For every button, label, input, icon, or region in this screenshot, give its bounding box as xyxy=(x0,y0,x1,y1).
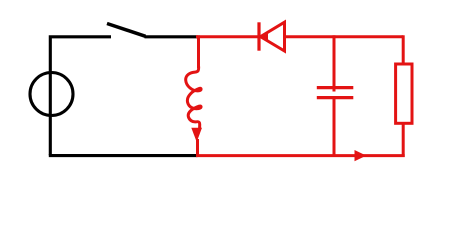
switch S1 blade xyxy=(107,24,146,37)
wire: red top segment (diode anode to top-right corner) xyxy=(285,35,404,38)
wire: black top segment (switch right contact to inductor node) xyxy=(145,35,198,38)
node A: top junction, red wire from inductor node to diode cathode xyxy=(196,35,259,38)
wire: right vertical drop to resistor xyxy=(402,35,405,64)
resistor R1 (load) xyxy=(396,64,412,123)
diode D1 cathode bar xyxy=(257,22,260,50)
arrow: output current direction (right) on bottom wire xyxy=(355,150,367,161)
inductor L1 (3-loop coil) xyxy=(186,67,201,129)
wire: capacitor top lead (taps top wire, overshoots top plate) xyxy=(333,35,336,91)
wire: inductor bottom lead xyxy=(196,139,199,156)
diode D1 triangle xyxy=(261,22,285,51)
wire: black bottom segment xyxy=(49,154,198,157)
wire: top-left black segment (corner to switch left contact) xyxy=(50,37,111,156)
wire: inductor top lead xyxy=(197,35,200,68)
capacitor C1 bottom plate xyxy=(317,96,354,99)
current source I1 (circle) xyxy=(30,73,73,116)
wire: capacitor bottom lead xyxy=(333,98,336,157)
capacitor C1 top plate xyxy=(317,86,354,89)
diode D1 apex wedge xyxy=(259,31,268,42)
wire: resistor bottom lead xyxy=(402,123,405,157)
arrow: inductor current direction (down) xyxy=(191,128,202,142)
wire: red bottom segment (inductor node to bottom-right corner) xyxy=(196,154,405,157)
